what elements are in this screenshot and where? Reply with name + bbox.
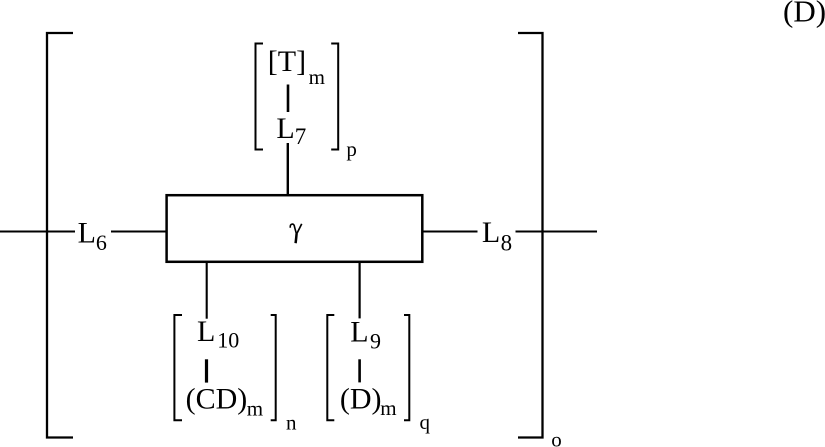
- svg-text:(CD): (CD): [186, 383, 248, 416]
- wire [T]m to L7: [287, 85, 290, 113]
- wire L8 to right outer: [516, 231, 598, 233]
- svg-text:(D): (D): [783, 0, 825, 29]
- svg-text:8: 8: [501, 230, 512, 255]
- svg-text:n: n: [286, 411, 297, 435]
- svg-text:q: q: [420, 410, 431, 434]
- svg-text:L: L: [482, 216, 500, 249]
- gamma box: [167, 195, 423, 262]
- bottom right group right bracket: [404, 315, 409, 420]
- svg-text:(D): (D): [340, 382, 382, 415]
- svg-text:o: o: [551, 427, 562, 447]
- svg-text:L: L: [276, 112, 294, 145]
- svg-text:L: L: [78, 216, 96, 249]
- wire L6 to box: [111, 231, 166, 233]
- wire box to L10 group: [206, 262, 208, 319]
- outer left bracket: [47, 33, 73, 438]
- svg-text:L: L: [197, 315, 215, 348]
- outer right bracket: [518, 33, 543, 438]
- svg-text:10: 10: [217, 328, 239, 353]
- svg-text:[T]: [T]: [268, 45, 306, 78]
- svg-text:L: L: [350, 316, 368, 349]
- svg-text:m: m: [309, 65, 325, 89]
- wire box to L8: [423, 231, 478, 233]
- gamma symbol: [290, 224, 301, 243]
- svg-text:m: m: [247, 396, 263, 420]
- svg-text:7: 7: [295, 124, 307, 149]
- wire L7 to box: [287, 143, 289, 195]
- wire L10 to (CD)m: [205, 359, 208, 382]
- svg-text:6: 6: [96, 230, 107, 255]
- bottom right group left bracket: [327, 315, 334, 420]
- top group left bracket: [256, 44, 264, 150]
- wire box to L9 group: [359, 262, 361, 318]
- svg-text:p: p: [346, 137, 357, 161]
- bottom left group right bracket: [271, 315, 276, 420]
- wire left outer: [0, 231, 75, 233]
- wire L9 to (D)m: [358, 359, 361, 382]
- top group right bracket: [331, 44, 338, 150]
- svg-text:9: 9: [370, 328, 381, 353]
- bottom left group left bracket: [174, 315, 182, 420]
- svg-text:m: m: [380, 396, 396, 420]
